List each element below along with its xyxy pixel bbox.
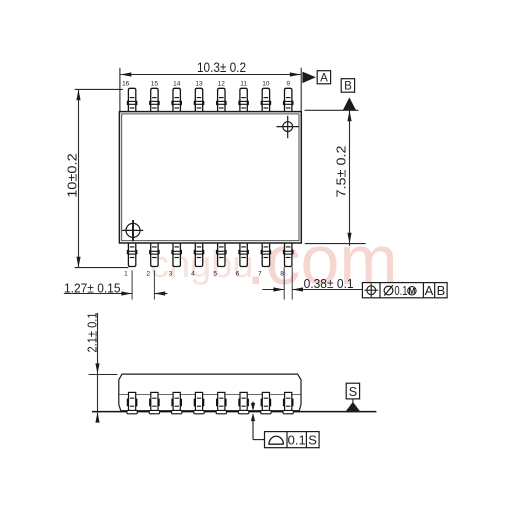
- svg-text:0.38± 0.1: 0.38± 0.1: [304, 276, 354, 291]
- svg-text:16: 16: [122, 80, 130, 87]
- svg-text:B: B: [344, 81, 352, 93]
- svg-text:15: 15: [151, 80, 159, 87]
- svg-text:14: 14: [173, 80, 181, 87]
- svg-text:1: 1: [124, 270, 128, 277]
- svg-text:A: A: [320, 72, 328, 84]
- svg-text:11: 11: [240, 80, 247, 87]
- svg-text:7.5± 0.2: 7.5± 0.2: [334, 146, 349, 198]
- svg-text:S: S: [308, 432, 317, 447]
- svg-text:7: 7: [258, 270, 262, 277]
- svg-text:3: 3: [169, 270, 173, 277]
- svg-text:10.3± 0.2: 10.3± 0.2: [197, 60, 246, 75]
- svg-text:2: 2: [146, 270, 150, 277]
- svg-text:2.1± 0.1: 2.1± 0.1: [84, 313, 99, 353]
- svg-text:M: M: [408, 287, 415, 296]
- svg-text:6: 6: [236, 270, 240, 277]
- svg-text:12: 12: [218, 80, 226, 87]
- svg-text:0.1: 0.1: [288, 432, 306, 447]
- svg-text:10: 10: [262, 80, 270, 87]
- svg-text:8: 8: [280, 270, 284, 277]
- svg-text:B: B: [437, 283, 446, 298]
- svg-text:1.27± 0.15: 1.27± 0.15: [64, 280, 121, 295]
- svg-text:A: A: [425, 283, 434, 298]
- svg-text:9: 9: [286, 80, 290, 87]
- svg-text:10±0.2: 10±0.2: [65, 153, 80, 198]
- svg-text:4: 4: [191, 270, 195, 277]
- svg-text:S: S: [349, 385, 357, 399]
- svg-text:13: 13: [195, 80, 203, 87]
- svg-text:5: 5: [213, 270, 217, 277]
- svg-text:0.1: 0.1: [394, 283, 407, 298]
